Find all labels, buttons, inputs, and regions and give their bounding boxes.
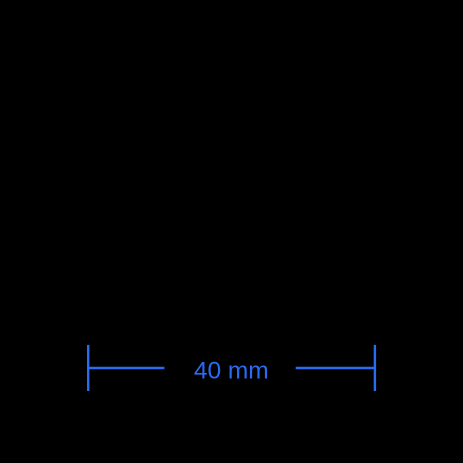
svg-text:40 mm: 40 mm <box>194 358 269 385</box>
dimension line left segment <box>88 367 164 369</box>
dimension tick left <box>87 345 89 391</box>
dimension line right segment <box>296 367 375 369</box>
dimension tick right <box>374 345 376 391</box>
